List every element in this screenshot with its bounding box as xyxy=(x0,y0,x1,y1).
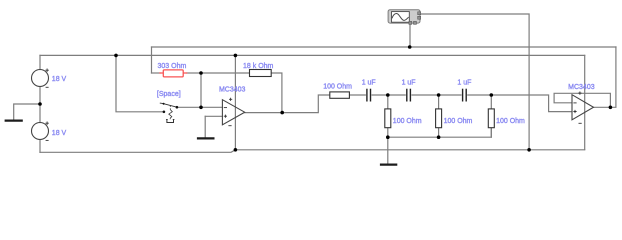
svg-text:303 Ohm: 303 Ohm xyxy=(158,63,187,70)
svg-text:1 uF: 1 uF xyxy=(362,80,376,87)
svg-text:18 V: 18 V xyxy=(52,76,67,83)
svg-text:MC3403: MC3403 xyxy=(219,86,246,93)
svg-text:100 Ohm: 100 Ohm xyxy=(323,84,352,91)
svg-text:100 Ohm: 100 Ohm xyxy=(444,118,473,125)
svg-text:100 Ohm: 100 Ohm xyxy=(393,118,422,125)
svg-text:1 uF: 1 uF xyxy=(402,80,416,87)
svg-text:1 uF: 1 uF xyxy=(457,80,471,87)
svg-text:100 Ohm: 100 Ohm xyxy=(496,118,525,125)
svg-text:[Space]: [Space] xyxy=(157,91,181,98)
svg-text:18 V: 18 V xyxy=(52,130,67,137)
svg-text:MC3403: MC3403 xyxy=(568,84,595,91)
svg-text:18 k Ohm: 18 k Ohm xyxy=(243,63,274,70)
